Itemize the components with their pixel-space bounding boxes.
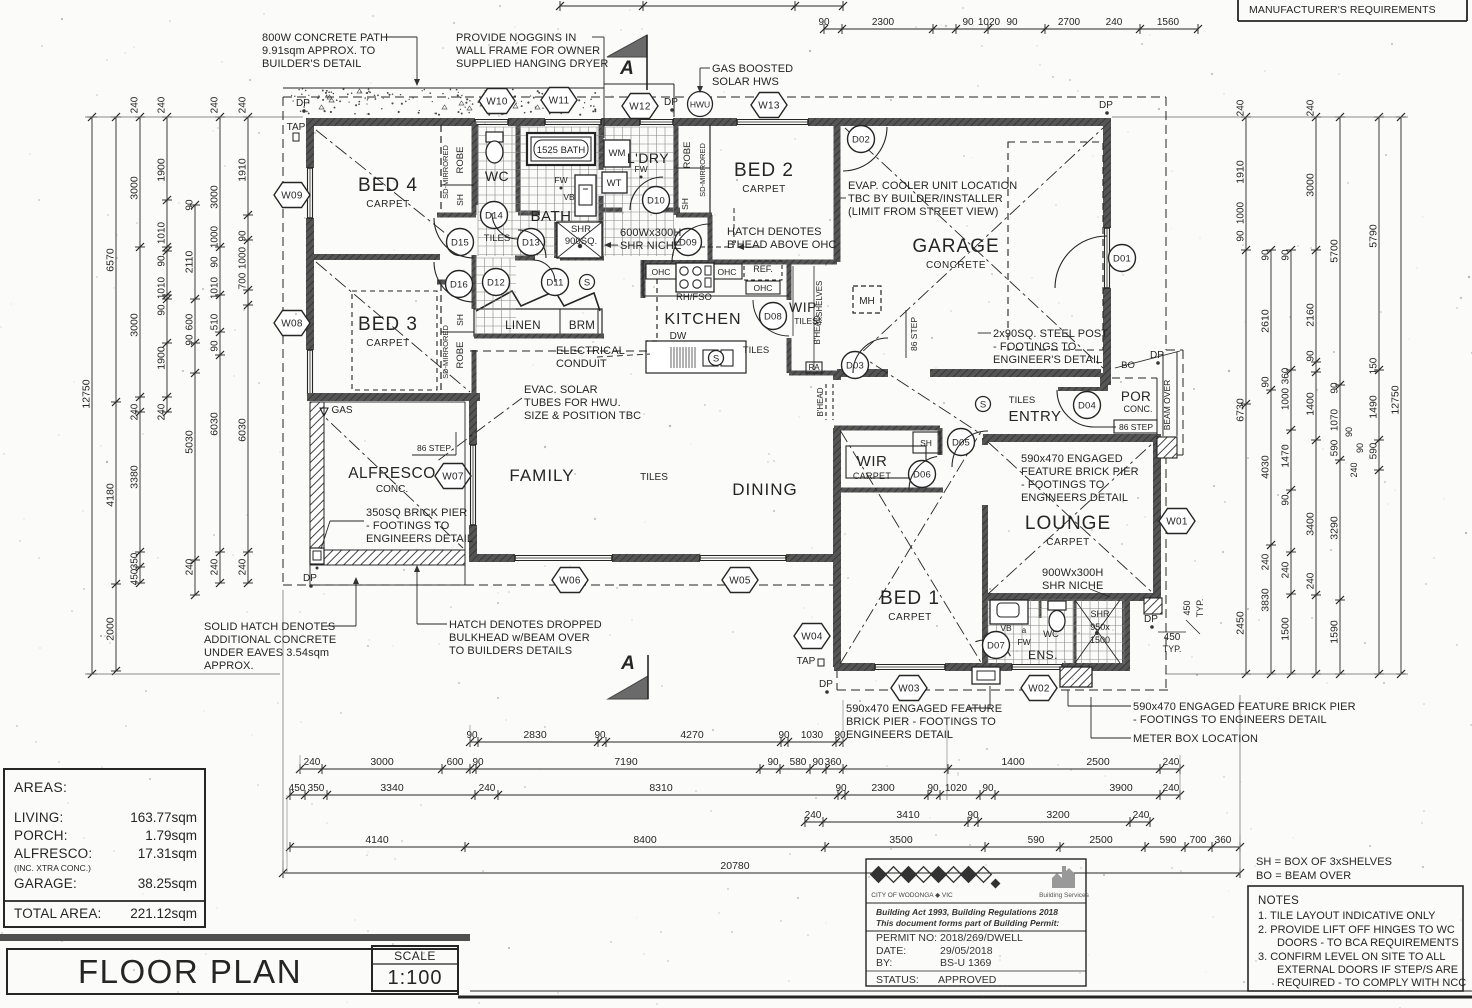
bed1 dining wall — [833, 373, 841, 380]
svg-text:700: 700 — [238, 272, 249, 289]
svg-text:2x90SQ. STEEL POST: 2x90SQ. STEEL POST — [993, 328, 1108, 340]
svg-text:240: 240 — [1349, 462, 1359, 477]
bed3 diagonal — [316, 262, 470, 392]
svg-text:3. CONFIRM LEVEL ON SITE TO: 3. CONFIRM LEVEL ON SITE TO ALL — [1258, 951, 1445, 963]
svg-text:240: 240 — [1133, 810, 1150, 821]
svg-text:1010: 1010 — [210, 276, 221, 299]
svg-text:90: 90 — [812, 757, 824, 768]
svg-text:VB: VB — [1000, 623, 1012, 633]
svg-text:4180: 4180 — [105, 483, 117, 507]
svg-text:2450: 2450 — [1235, 611, 1247, 635]
kitchen bench back — [643, 260, 710, 264]
svg-text:700: 700 — [1190, 835, 1207, 846]
family dining bottom wall — [469, 554, 515, 562]
svg-text:BED 4: BED 4 — [358, 175, 418, 196]
svg-text:4140: 4140 — [365, 834, 389, 846]
svg-text:DP: DP — [296, 98, 310, 109]
left dim col F — [219, 117, 221, 583]
svg-text:SH: SH — [455, 314, 465, 326]
bed3 dashed rect — [352, 291, 437, 390]
window tag W01 — [1159, 509, 1195, 534]
svg-text:3000: 3000 — [370, 756, 394, 768]
svg-text:CARPET: CARPET — [742, 184, 786, 195]
svg-text:17.31sqm: 17.31sqm — [138, 846, 197, 861]
svg-text:5030: 5030 — [184, 430, 196, 454]
svg-text:BATH: BATH — [531, 208, 572, 225]
svg-text:3500: 3500 — [889, 834, 913, 846]
svg-text:BY:: BY: — [876, 957, 892, 969]
svg-text:6030: 6030 — [237, 418, 249, 442]
svg-text:240: 240 — [210, 96, 221, 113]
manufacturers requirements note box — [1237, 0, 1239, 21]
bed1 ens bottom wall — [834, 663, 875, 671]
svg-text:3000: 3000 — [129, 313, 141, 337]
svg-text:TAP: TAP — [797, 656, 816, 667]
svg-text:8400: 8400 — [633, 834, 657, 846]
svg-text:CONDUIT: CONDUIT — [556, 358, 607, 370]
svg-text:DP: DP — [1144, 614, 1158, 625]
svg-text:D15: D15 — [451, 237, 469, 248]
svg-text:AREAS:: AREAS: — [14, 779, 67, 795]
lounge bottom wall — [983, 593, 1160, 601]
svg-text:BS-U 1369: BS-U 1369 — [940, 957, 992, 969]
svg-text:SCALE: SCALE — [394, 949, 436, 963]
svg-text:Building Services: Building Services — [1039, 892, 1090, 899]
svg-text:PORCH:: PORCH: — [14, 828, 68, 843]
alfresco hatch band left — [310, 402, 324, 564]
svg-text:29/05/2018: 29/05/2018 — [940, 945, 993, 957]
svg-text:MH: MH — [859, 296, 875, 307]
wc toilet — [486, 132, 503, 142]
kitchen family dash line — [470, 350, 648, 352]
right dim col 6 — [1378, 117, 1380, 674]
garage diagonal 1 — [845, 128, 1103, 368]
left dim 12750 — [91, 117, 93, 674]
laundry WT — [602, 172, 627, 193]
svg-text:240: 240 — [1306, 99, 1317, 116]
svg-text:TILES: TILES — [484, 233, 510, 244]
wip shelf lines — [792, 266, 794, 336]
svg-text:W01: W01 — [1166, 517, 1188, 528]
svg-text:360: 360 — [1281, 367, 1292, 384]
svg-text:STATUS:: STATUS: — [876, 974, 919, 986]
window tag W03 — [891, 676, 927, 701]
svg-text:CARPET: CARPET — [888, 612, 932, 623]
svg-text:90: 90 — [1281, 249, 1292, 261]
svg-text:B'HEAD: B'HEAD — [813, 315, 822, 344]
svg-text:D10: D10 — [647, 195, 665, 206]
ra box — [806, 362, 822, 373]
svg-text:1900: 1900 — [156, 158, 168, 182]
window W02 in bottom wall — [1012, 664, 1062, 666]
eave outline dashed left — [282, 97, 284, 585]
window tag W08 — [274, 311, 310, 336]
svg-text:240: 240 — [238, 558, 249, 575]
svg-text:6570: 6570 — [105, 248, 117, 272]
door D07 circle — [983, 632, 1010, 659]
svg-text:D08: D08 — [764, 311, 782, 322]
svg-text:(INC. XTRA CONC.): (INC. XTRA CONC.) — [14, 863, 91, 873]
door D08 circle — [760, 303, 787, 330]
alfresco diagonal — [313, 406, 463, 548]
svg-text:CARPET: CARPET — [853, 471, 892, 481]
svg-text:90: 90 — [1306, 350, 1317, 362]
beam over strip — [1162, 352, 1164, 436]
svg-text:LOUNGE: LOUNGE — [1025, 513, 1111, 534]
svg-text:W11: W11 — [549, 96, 570, 107]
svg-text:BUILDER'S DETAIL: BUILDER'S DETAIL — [262, 58, 361, 70]
svg-text:1900: 1900 — [156, 346, 168, 370]
svg-text:APPROVED: APPROVED — [938, 974, 997, 986]
svg-text:350: 350 — [130, 552, 141, 569]
svg-text:SH = BOX OF 3xSHELVES: SH = BOX OF 3xSHELVES — [1256, 856, 1392, 868]
kitchen island sink S — [709, 351, 724, 366]
svg-text:BO: BO — [1121, 360, 1135, 371]
svg-text:90: 90 — [835, 783, 847, 794]
svg-text:NOTES: NOTES — [1258, 895, 1299, 907]
svg-text:W13: W13 — [758, 101, 780, 112]
hwu circle — [688, 92, 713, 117]
svg-text:2830: 2830 — [523, 729, 547, 741]
svg-text:ELECTRICAL: ELECTRICAL — [556, 345, 625, 357]
svg-text:1070: 1070 — [1330, 408, 1341, 431]
right dim col 3 — [1290, 250, 1292, 674]
svg-text:3000: 3000 — [129, 176, 141, 200]
bath shower — [557, 222, 602, 258]
door D07 arc — [975, 640, 1010, 656]
svg-text:90: 90 — [767, 757, 779, 768]
svg-text:FAMILY: FAMILY — [509, 466, 574, 485]
svg-text:1910: 1910 — [1235, 160, 1247, 184]
svg-text:20780: 20780 — [720, 860, 749, 872]
svg-text:590: 590 — [1028, 835, 1045, 846]
bottom dim row 1 — [470, 741, 843, 743]
right dim col 1 — [1245, 117, 1247, 674]
bhead dashes dining — [825, 384, 827, 420]
svg-text:WC: WC — [485, 168, 509, 184]
bath right wall — [599, 125, 604, 170]
svg-text:360: 360 — [1215, 835, 1232, 846]
door D01 circle — [1109, 245, 1136, 272]
svg-text:12750: 12750 — [1390, 385, 1402, 414]
svg-text:90: 90 — [1006, 17, 1018, 28]
stamp logo diamonds — [871, 867, 887, 883]
svg-text:DP: DP — [1150, 350, 1164, 361]
svg-text:90: 90 — [594, 730, 606, 741]
svg-text:This document forms part of Bu: This document forms part of Building Per… — [876, 918, 1059, 928]
svg-text:GAS BOOSTED: GAS BOOSTED — [712, 63, 793, 75]
svg-text:W10: W10 — [486, 97, 508, 108]
svg-text:SHR NICHE: SHR NICHE — [620, 240, 681, 252]
svg-text:a: a — [1022, 626, 1027, 635]
svg-text:90: 90 — [1236, 230, 1247, 242]
svg-text:BED 3: BED 3 — [358, 314, 418, 335]
dimension row top partial 2 — [824, 28, 1198, 30]
svg-text:6030: 6030 — [209, 412, 221, 436]
left dim col C — [139, 117, 141, 583]
svg-text:950x: 950x — [1090, 622, 1110, 632]
window W08 in left wall — [307, 350, 309, 397]
svg-text:TYP.: TYP. — [1195, 599, 1205, 618]
eave outline bottom right — [837, 689, 1168, 691]
garage diagonal 2 — [845, 128, 1103, 368]
svg-text:HWU: HWU — [690, 100, 710, 110]
svg-text:DOORS - TO BCA REQUIREMENTS: DOORS - TO BCA REQUIREMENTS — [1277, 937, 1459, 949]
lounge corner pier — [1144, 598, 1162, 614]
svg-text:UNDER EAVES 3.54sqm: UNDER EAVES 3.54sqm — [204, 647, 329, 659]
svg-text:90: 90 — [157, 255, 168, 267]
svg-text:450: 450 — [289, 783, 306, 794]
left dim col E — [194, 205, 196, 595]
svg-text:86 STEP: 86 STEP — [909, 317, 919, 351]
svg-text:90: 90 — [962, 17, 974, 28]
svg-text:1560: 1560 — [1157, 17, 1180, 28]
svg-text:BULKHEAD w/BEAM OVER: BULKHEAD w/BEAM OVER — [449, 632, 590, 644]
svg-text:590x470 ENGAGED FEATURE: 590x470 ENGAGED FEATURE — [846, 703, 1002, 715]
svg-text:350SQ BRICK PIER: 350SQ BRICK PIER — [366, 507, 467, 519]
svg-text:150: 150 — [1369, 357, 1380, 374]
svg-text:BED 1: BED 1 — [880, 588, 940, 609]
svg-text:2500: 2500 — [1086, 756, 1110, 768]
svg-text:RH/FSO: RH/FSO — [676, 292, 712, 303]
concrete path band — [283, 87, 604, 89]
window W05 in dining wall — [700, 555, 786, 557]
svg-text:450: 450 — [130, 568, 141, 585]
svg-text:WIR: WIR — [857, 453, 888, 470]
svg-text:W06: W06 — [559, 576, 581, 587]
bottom dim row 5 — [290, 846, 1240, 848]
kitchen dashed bhead — [656, 279, 658, 341]
svg-text:DP: DP — [303, 573, 317, 584]
svg-text:90: 90 — [210, 256, 221, 268]
svg-text:ROBE: ROBE — [455, 342, 466, 369]
svg-text:TAP: TAP — [287, 122, 306, 133]
svg-text:ENGINEER'S DETAIL: ENGINEER'S DETAIL — [993, 354, 1102, 366]
title block top band — [0, 934, 470, 941]
wir top wall — [834, 426, 940, 431]
svg-text:SH: SH — [455, 194, 465, 206]
alfresco hatch band bottom — [310, 550, 465, 565]
svg-text:HATCH DENOTES: HATCH DENOTES — [727, 226, 822, 238]
svg-text:SD-MIRRORED: SD-MIRRORED — [441, 145, 450, 199]
svg-text:90: 90 — [1261, 376, 1272, 388]
svg-text:1020: 1020 — [978, 17, 1001, 28]
svg-text:3410: 3410 — [896, 809, 920, 821]
svg-text:ROBE: ROBE — [682, 142, 693, 169]
svg-text:CARPET: CARPET — [366, 338, 410, 349]
bed2 robe bottom — [676, 213, 712, 218]
window tag W06 — [552, 568, 588, 593]
svg-text:SOLAR HWS: SOLAR HWS — [712, 76, 779, 88]
laundry trough WM — [604, 140, 630, 167]
window tag W12 — [622, 94, 658, 119]
hall wall above linen — [472, 255, 477, 309]
svg-text:240: 240 — [1106, 17, 1123, 28]
bath tub — [527, 133, 595, 165]
svg-text:EVAC. SOLAR: EVAC. SOLAR — [524, 384, 598, 396]
door D10 circle — [643, 187, 670, 214]
porch front door wall stub — [1058, 387, 1104, 391]
svg-text:- FOOTINGS TO: - FOOTINGS TO — [366, 520, 450, 532]
svg-text:DP: DP — [1099, 100, 1113, 111]
door D05 circle — [948, 429, 975, 456]
svg-text:TILES: TILES — [1009, 395, 1035, 406]
svg-text:12750: 12750 — [81, 379, 93, 408]
svg-text:590: 590 — [1160, 835, 1177, 846]
svg-text:1010: 1010 — [157, 276, 168, 299]
svg-text:D06: D06 — [913, 469, 931, 480]
svg-text:3830: 3830 — [1260, 588, 1272, 612]
svg-text:90: 90 — [1355, 443, 1365, 453]
svg-text:600: 600 — [185, 313, 196, 330]
stamp box — [866, 859, 1086, 986]
svg-text:TOTAL AREA:: TOTAL AREA: — [14, 906, 101, 921]
svg-text:3000: 3000 — [209, 185, 221, 209]
wir bottom wall — [834, 488, 943, 493]
window W12 in top wall — [640, 119, 673, 121]
svg-text:PERMIT NO: 2018/269/DWELL: PERMIT NO: 2018/269/DWELL — [876, 932, 1023, 944]
svg-text:D13: D13 — [522, 237, 540, 248]
svg-text:240: 240 — [157, 403, 168, 420]
stamp divider 3 — [866, 970, 1086, 972]
svg-text:450: 450 — [1164, 632, 1181, 643]
wall extension lines — [85, 116, 303, 118]
window tag W04 — [794, 624, 830, 649]
exterior top wall — [310, 118, 475, 126]
svg-text:GARAGE:: GARAGE: — [14, 876, 77, 891]
svg-text:APPROX.: APPROX. — [204, 660, 254, 672]
ldry door arc D10 — [630, 177, 663, 210]
svg-text:1500: 1500 — [1090, 635, 1110, 645]
svg-text:D07: D07 — [987, 640, 1005, 651]
svg-text:EXTERNAL DOORS IF STEP/S ARE: EXTERNAL DOORS IF STEP/S ARE — [1277, 964, 1458, 976]
gas marker — [320, 408, 328, 416]
svg-text:2160: 2160 — [1305, 303, 1317, 327]
svg-text:TUBES FOR HWU.: TUBES FOR HWU. — [524, 397, 621, 409]
kitchen west wall stub — [641, 260, 646, 298]
ens fixtures divider — [1039, 600, 1042, 618]
svg-text:ROBE: ROBE — [455, 147, 466, 174]
svg-text:TYP.: TYP. — [1163, 644, 1182, 654]
window tag W02 — [1021, 676, 1057, 701]
svg-text:360: 360 — [825, 757, 842, 768]
bed4 diagonal — [316, 130, 470, 253]
svg-text:38.25sqm: 38.25sqm — [138, 876, 197, 891]
svg-text:PROVIDE NOGGINS IN: PROVIDE NOGGINS IN — [456, 32, 576, 44]
svg-text:1000: 1000 — [210, 225, 221, 248]
svg-text:CARPET: CARPET — [1046, 537, 1090, 548]
svg-text:1.79sqm: 1.79sqm — [145, 828, 197, 843]
kitchen bench front — [643, 295, 789, 297]
window W10 in top wall — [475, 119, 508, 121]
garage bottom wall — [837, 369, 888, 377]
svg-text:600: 600 — [447, 757, 464, 768]
svg-text:TBC BY BUILDER/INSTALLER: TBC BY BUILDER/INSTALLER — [848, 193, 1003, 205]
garage right wall — [1103, 118, 1111, 228]
eave outline dashed top — [283, 96, 1166, 98]
svg-text:W07: W07 — [442, 472, 464, 483]
window W06 in family wall — [515, 555, 612, 557]
kitchen island — [646, 341, 746, 373]
door D11 circle — [542, 269, 569, 296]
svg-text:9.91sqm APPROX. TO: 9.91sqm APPROX. TO — [262, 45, 376, 57]
svg-text:WALL FRAME FOR OWNER: WALL FRAME FOR OWNER — [456, 45, 600, 57]
svg-text:90: 90 — [157, 304, 168, 316]
bed4 robe front — [440, 125, 442, 213]
title block frame — [7, 949, 458, 994]
smoke detector entry — [976, 397, 991, 412]
svg-text:POR: POR — [1121, 389, 1151, 404]
bottom dim row 6 — [283, 872, 1240, 874]
svg-text:240: 240 — [805, 810, 822, 821]
svg-text:SOLID HATCH DENOTES: SOLID HATCH DENOTES — [204, 621, 335, 633]
engaged pier 2 — [1060, 667, 1092, 687]
linen shelf zigzag — [476, 291, 600, 311]
svg-text:TILES: TILES — [743, 345, 769, 356]
svg-text:90: 90 — [185, 334, 196, 346]
right dim col 2 — [1270, 250, 1272, 674]
wc left wall — [474, 125, 479, 205]
svg-text:ENGINEERS DETAIL: ENGINEERS DETAIL — [366, 533, 473, 545]
svg-text:OHC: OHC — [718, 267, 737, 277]
svg-text:90: 90 — [466, 730, 478, 741]
svg-text:CONC.: CONC. — [1124, 404, 1153, 414]
svg-text:S: S — [584, 277, 590, 288]
svg-text:SH: SH — [920, 438, 932, 448]
svg-text:1000: 1000 — [1236, 201, 1247, 224]
eave outline right — [1165, 97, 1167, 350]
svg-text:TILES: TILES — [640, 472, 668, 483]
svg-text:1500: 1500 — [1280, 617, 1292, 641]
svg-text:GAS: GAS — [331, 405, 352, 416]
notes box — [1248, 886, 1463, 991]
svg-text:90: 90 — [1261, 249, 1272, 261]
svg-text:90: 90 — [185, 199, 196, 211]
ldry bottom wall — [601, 208, 622, 213]
ens shower — [1075, 600, 1120, 663]
svg-text:MANUFACTURER'S REQUIREMENTS: MANUFACTURER'S REQUIREMENTS — [1249, 4, 1436, 16]
svg-text:240: 240 — [185, 558, 196, 575]
svg-text:900Wx300H: 900Wx300H — [1042, 567, 1103, 579]
svg-text:LINEN: LINEN — [505, 320, 541, 332]
window tag W13 — [751, 93, 787, 118]
svg-text:CONC.: CONC. — [376, 484, 408, 495]
svg-text:240: 240 — [1261, 553, 1272, 570]
ens vanity — [990, 600, 1028, 624]
window tag W09 — [274, 183, 310, 208]
svg-text:D02: D02 — [852, 134, 870, 145]
svg-text:D01: D01 — [1113, 253, 1131, 264]
eave outline dashed bottom left — [283, 584, 837, 586]
svg-text:240: 240 — [157, 96, 168, 113]
svg-text:86 STEP: 86 STEP — [417, 443, 451, 453]
ens tile grid — [987, 600, 989, 664]
svg-text:3200: 3200 — [1046, 809, 1070, 821]
svg-text:FW: FW — [1017, 637, 1030, 647]
hall tile grid — [475, 258, 477, 334]
kitchen ohc row — [646, 264, 676, 279]
lounge diagonal 2 — [988, 442, 1154, 594]
svg-text:90: 90 — [1330, 382, 1341, 394]
bath bottom wall — [515, 256, 535, 261]
wir sh box — [913, 432, 940, 453]
svg-text:DATE:: DATE: — [876, 945, 906, 957]
svg-text:1010: 1010 — [157, 221, 168, 244]
scan noise — [940, 24, 941, 25]
door D03 circle — [842, 352, 869, 379]
svg-text:W12: W12 — [629, 102, 651, 113]
bed3 robe front — [440, 284, 442, 395]
